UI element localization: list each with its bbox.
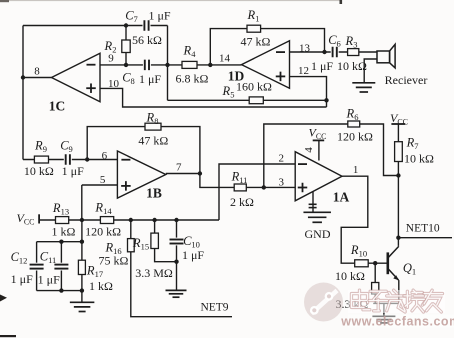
- svg-text:1 μF: 1 μF: [139, 72, 161, 86]
- svg-text:1 μF: 1 μF: [38, 273, 60, 287]
- svg-text:1C: 1C: [49, 99, 66, 114]
- svg-text:3.3 MΩ: 3.3 MΩ: [135, 266, 173, 280]
- svg-text:120 kΩ: 120 kΩ: [85, 224, 121, 238]
- svg-text:75 kΩ: 75 kΩ: [99, 254, 129, 268]
- svg-text:3: 3: [279, 176, 285, 188]
- svg-text:14: 14: [219, 53, 231, 65]
- svg-text:1 kΩ: 1 kΩ: [89, 279, 113, 293]
- svg-text:1 μF: 1 μF: [62, 164, 84, 178]
- svg-text:1 μF: 1 μF: [148, 9, 170, 23]
- svg-text:NET9: NET9: [200, 302, 228, 314]
- svg-text:160 kΩ: 160 kΩ: [236, 79, 272, 93]
- svg-text:1: 1: [353, 164, 359, 176]
- svg-text:10 kΩ: 10 kΩ: [404, 152, 434, 166]
- svg-text:10 kΩ: 10 kΩ: [24, 164, 54, 178]
- svg-text:6: 6: [102, 150, 108, 162]
- svg-text:2: 2: [279, 152, 285, 164]
- svg-text:47 kΩ: 47 kΩ: [138, 133, 168, 147]
- svg-text:1 μF: 1 μF: [11, 272, 33, 286]
- svg-text:47 kΩ: 47 kΩ: [241, 35, 271, 49]
- svg-text:56 kΩ: 56 kΩ: [132, 33, 162, 47]
- svg-text:GND: GND: [305, 227, 331, 241]
- svg-text:5: 5: [100, 174, 106, 186]
- svg-text:12: 12: [298, 65, 309, 77]
- svg-text:6.8 kΩ: 6.8 kΩ: [176, 72, 209, 86]
- svg-text:8: 8: [34, 66, 40, 78]
- svg-text:10 kΩ: 10 kΩ: [335, 269, 365, 283]
- svg-text:10: 10: [108, 78, 120, 90]
- svg-text:7: 7: [176, 161, 182, 173]
- svg-text:1 kΩ: 1 kΩ: [51, 224, 75, 238]
- svg-text:120 kΩ: 120 kΩ: [337, 130, 373, 144]
- svg-text:www.elecfans.com: www.elecfans.com: [340, 315, 454, 329]
- svg-text:Reciever: Reciever: [385, 73, 428, 87]
- svg-text:13: 13: [299, 43, 311, 55]
- svg-text:1B: 1B: [146, 186, 162, 201]
- svg-text:9: 9: [108, 53, 114, 65]
- svg-text:10 kΩ: 10 kΩ: [337, 59, 367, 73]
- svg-text:4: 4: [303, 147, 315, 153]
- svg-text:1 μF: 1 μF: [311, 59, 333, 73]
- svg-text:NET10: NET10: [406, 223, 440, 235]
- svg-text:1A: 1A: [333, 190, 350, 205]
- svg-text:2 kΩ: 2 kΩ: [230, 195, 254, 209]
- svg-text:1 μF: 1 μF: [182, 248, 204, 262]
